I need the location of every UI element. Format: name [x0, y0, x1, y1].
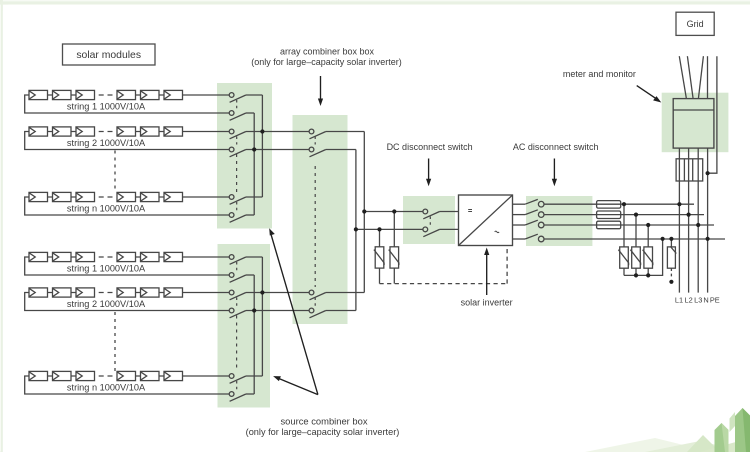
three-phase fuse block — [676, 159, 703, 181]
wire array combiner output lower - — [326, 310, 356, 312]
junction (662.6,238.8) — [661, 237, 665, 241]
wire inverter output N to AC switch — [513, 238, 526, 240]
switch string n + (lower combiner) — [229, 374, 246, 384]
svg-text:L2: L2 — [684, 296, 692, 305]
wire inverter output L2 to AC switch — [513, 214, 526, 216]
dashed more indicator array combiner — [314, 166, 316, 287]
junction (394.3,211.5) — [392, 209, 396, 213]
AC surge arrester 2 bottom lead — [635, 268, 637, 275]
DC disconnect switch pole - — [423, 227, 440, 237]
fuse F1 — [597, 201, 621, 209]
dashed gang link (lower combiner) — [236, 381, 238, 390]
switch string 2 + (lower combiner) — [229, 290, 246, 300]
label box: solar modules — [63, 44, 156, 65]
arrow to meter — [637, 86, 662, 103]
AC surge arrester 2 lead — [635, 215, 637, 247]
junction (707.6,173.2) — [706, 171, 710, 175]
PV string 2 (upper): modules and wiring — [25, 127, 230, 150]
decorative corner graphic — [585, 408, 750, 452]
svg-text:array combiner box box: array combiner box box — [280, 47, 375, 57]
junction (648.2,275.4) — [646, 273, 650, 277]
junction (379.5,229.4) — [377, 227, 381, 231]
DC disconnect switch pole + — [423, 209, 440, 219]
wire grid feeder L2 diagonal — [687, 56, 693, 98]
wire switch output to bus (string n - upper combiner) — [246, 214, 254, 216]
PV string n (upper): modules and wiring — [25, 192, 230, 215]
AC surge arrester 1 bottom lead — [623, 268, 625, 275]
switch string 1 + (upper combiner) — [229, 93, 246, 103]
dashed gang link (lower combiner) — [236, 262, 238, 271]
array combiner switch upper - — [309, 147, 326, 157]
meter and monitor M1 — [673, 99, 714, 149]
arrow to AC disconnect switch — [552, 159, 557, 187]
AC surge arrester 3 bottom lead — [647, 268, 649, 275]
bus bar - (upper combiner) — [253, 113, 255, 215]
wire switch output to bus (string 1 + lower combiner) — [246, 256, 263, 258]
svg-text:source combiner box: source combiner box — [280, 415, 367, 426]
wire switch output to bus (string 1 + upper combiner) — [246, 94, 263, 96]
switch string n - (upper combiner) — [229, 213, 246, 223]
junction (636,275.4) — [634, 273, 638, 277]
junction (707.6,238.8) — [706, 237, 710, 241]
dashed gang link (lower combiner) — [236, 298, 238, 307]
wire switch output to - bus and on to array combiner (upper combiner) — [246, 149, 309, 151]
svg-text:(only for large–capacity solar: (only for large–capacity solar inverter) — [246, 427, 400, 437]
decorative green left band — [0, 0, 3, 452]
wire PE from grid jogging into N — [708, 56, 717, 173]
fuse F3 — [597, 221, 621, 229]
wire + riser joining upper and lower outputs — [363, 132, 365, 293]
dashed gang link DC disconnect — [429, 217, 431, 225]
switch string 2 + (upper combiner) — [229, 129, 246, 139]
wire AC bus L1 — [544, 203, 694, 205]
PV string n (lower): modules and wiring — [25, 371, 230, 394]
junction (648.2,225) — [646, 223, 650, 227]
dashed earth lead below N arrester — [670, 268, 672, 279]
AC surge arrester 3 (varistor) — [643, 247, 653, 268]
AC disconnect switch pole L2 — [525, 210, 544, 218]
svg-text:solar modules: solar modules — [76, 50, 141, 61]
wire - riser joining upper and lower outputs — [355, 150, 357, 311]
wire switch output to + bus and on to array combiner (lower combiner) — [246, 292, 309, 294]
switch string n + (upper combiner) — [229, 195, 246, 205]
dashed more-strings indicator inside box (lower combiner) — [236, 316, 238, 372]
PV string 1 (lower): modules and wiring — [25, 252, 230, 275]
junction (688.6,214.6) — [687, 213, 691, 217]
wire array combiner output lower + — [326, 292, 365, 294]
switch string 1 - (lower combiner) — [229, 273, 246, 283]
svg-text:meter and monitor: meter and monitor — [563, 69, 636, 79]
arrow to source combiner box 2 — [273, 376, 318, 395]
svg-text:Grid: Grid — [687, 19, 704, 29]
arrow to DC disconnect switch — [426, 159, 431, 187]
AC surge arrester 1 lead — [623, 204, 625, 247]
svg-text:DC disconnect switch: DC disconnect switch — [387, 142, 473, 152]
wire AC bus L3 — [544, 224, 714, 226]
wire inverter output L1 to AC switch — [513, 203, 526, 205]
svg-text:PE: PE — [710, 296, 720, 305]
DC disconnect switch green area — [403, 196, 455, 244]
wire array combiner output upper - — [326, 149, 356, 151]
wire switch output to bus (string 1 - upper combiner) — [246, 112, 254, 114]
DC surge arrester 2 (varistor) — [389, 247, 399, 268]
dashed more-strings indicator (lower string area) — [114, 312, 116, 371]
bus bar + (upper combiner) — [261, 95, 263, 197]
DC surge arrester 1 bottom lead — [379, 268, 381, 284]
DC surge arrester 2 bottom lead — [393, 268, 395, 284]
svg-text:string n 1000V/10A: string n 1000V/10A — [67, 204, 146, 214]
DC surge arrester 2 lead — [393, 212, 395, 247]
PV string 1 (upper): modules and wiring — [25, 90, 230, 113]
source combiner box 2 (lower group) green area — [218, 244, 271, 408]
dashed more-strings indicator inside box (upper combiner) — [236, 154, 238, 193]
junction (671.4,238.8) — [669, 237, 673, 241]
meter and monitor green area — [662, 93, 729, 153]
fuse F2 — [597, 211, 621, 219]
wire AC bus N — [544, 238, 725, 240]
AC surge arrester 3 lead — [647, 225, 649, 247]
wire switch output to bus (string n + upper combiner) — [246, 196, 263, 198]
wire L1 vertical from meter to terminals — [678, 148, 680, 293]
wire switch output to - bus and on to array combiner (lower combiner) — [246, 310, 309, 312]
AC disconnect switch green area — [526, 196, 592, 246]
wire N vertical from meter to terminals — [707, 148, 709, 293]
junction (671.4,281.8) — [669, 280, 673, 284]
switch string 2 - (lower combiner) — [229, 308, 246, 318]
wire switch output to bus (string 1 - lower combiner) — [246, 274, 254, 276]
arrow to source combiner box 1 — [269, 228, 318, 394]
AC disconnect switch pole L3 — [525, 220, 544, 228]
array combiner switch upper + — [309, 129, 326, 139]
terminal labels L1 L2 L3 N PE — [675, 296, 720, 305]
switch string 2 - (upper combiner) — [229, 147, 246, 157]
junction (679.4,204.2) — [677, 202, 681, 206]
dashed gang link (upper combiner) — [236, 100, 238, 109]
wire array combiner output upper + — [326, 131, 365, 133]
switch string 1 - (upper combiner) — [229, 111, 246, 121]
source combiner box 1 (upper group) green area — [217, 83, 272, 229]
switch string n - (lower combiner) — [229, 392, 246, 402]
svg-text:string n 1000V/10A: string n 1000V/10A — [67, 383, 146, 393]
AC surge arrester 1 (varistor) — [618, 247, 628, 268]
PV string 2 (lower): modules and wiring — [25, 288, 230, 311]
junction (698.2,225) — [696, 223, 700, 227]
array combiner switch lower - — [309, 308, 326, 318]
DC surge arrester 1 (varistor) — [374, 247, 384, 268]
junction (254.2,149) — [252, 147, 256, 151]
AC disconnect switch pole N — [525, 234, 544, 242]
junction (364.3,211.5) — [362, 209, 366, 213]
dashed gang link (upper combiner) — [236, 137, 238, 145]
svg-text:solar inverter: solar inverter — [461, 298, 513, 308]
decorative green top band — [0, 0, 750, 5]
junction (624,204.2) — [622, 202, 626, 206]
arrow to solar inverter — [484, 248, 489, 296]
N surge arrester (spark gap) — [667, 246, 676, 268]
wire grid feeder N vertical — [707, 56, 709, 98]
N surge arrester lead — [670, 239, 672, 247]
junction (254.2,310.5) — [252, 308, 256, 312]
DC surge arrester 1 lead — [379, 229, 381, 246]
wire switch output to + bus and on to array combiner (upper combiner) — [246, 131, 309, 133]
wire L2 vertical from meter to terminals — [688, 148, 690, 293]
wire arrester collector to N — [624, 239, 663, 276]
svg-text:AC disconnect switch: AC disconnect switch — [513, 142, 599, 152]
wire L3 vertical from meter to terminals — [697, 148, 699, 293]
array combiner switch lower + — [309, 290, 326, 300]
AC surge arrester 2 (varistor) — [630, 247, 640, 268]
svg-text:(only for large–capacity solar: (only for large–capacity solar inverter) — [251, 57, 402, 67]
svg-text:string 1 1000V/10A: string 1 1000V/10A — [67, 264, 146, 274]
arrow to array combiner box — [318, 76, 323, 106]
dashed gang link array combiner upper — [314, 137, 316, 145]
wire DC + bus to DC disconnect — [364, 211, 458, 213]
svg-text:string 2 1000V/10A: string 2 1000V/10A — [67, 138, 146, 148]
dashed gang link array combiner lower — [314, 298, 316, 307]
svg-text:N: N — [703, 296, 708, 305]
wire AC bus L2 — [544, 214, 704, 216]
svg-text:L1: L1 — [675, 296, 683, 305]
junction (262.4,292.5) — [260, 290, 264, 294]
svg-text:L3: L3 — [694, 296, 702, 305]
junction (636,214.6) — [634, 213, 638, 217]
bus bar - (lower combiner) — [253, 275, 255, 394]
wire grid feeder L1 diagonal — [679, 56, 686, 98]
dashed more-strings indicator (upper string area) — [114, 151, 116, 193]
dashed protective earth line — [380, 247, 508, 284]
label box: Grid — [676, 12, 714, 35]
array combiner box green area — [293, 115, 348, 324]
svg-text:string 1 1000V/10A: string 1 1000V/10A — [67, 102, 146, 112]
AC disconnect switch pole L1 — [525, 199, 544, 207]
wire inverter output L3 to AC switch — [513, 224, 526, 226]
junction (355.9,229.4) — [354, 227, 358, 231]
junction (262.4,131.5) — [260, 129, 264, 133]
switch string 1 + (lower combiner) — [229, 255, 246, 265]
wire switch output to bus (string n - lower combiner) — [246, 393, 254, 395]
wire switch output to bus (string n + lower combiner) — [246, 375, 263, 377]
bus bar + (lower combiner) — [261, 257, 263, 376]
wire DC - bus to DC disconnect — [356, 228, 459, 230]
solar inverter U1 — [459, 195, 513, 246]
wire grid feeder L3 diagonal — [698, 56, 703, 98]
svg-text:string 2 1000V/10A: string 2 1000V/10A — [67, 299, 146, 309]
dashed gang link (upper combiner) — [236, 202, 238, 211]
